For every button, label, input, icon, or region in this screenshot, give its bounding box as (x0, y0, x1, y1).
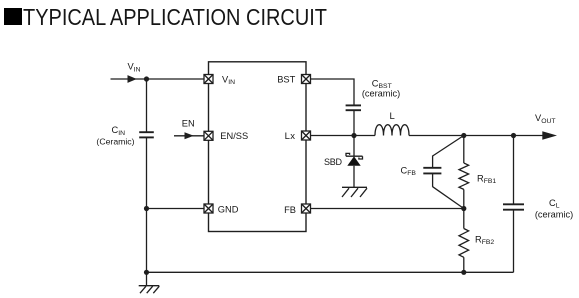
pin BST (277, 75, 310, 85)
junction FB node (461, 206, 466, 211)
svg-text:FB: FB (284, 205, 296, 215)
pin Lx (285, 131, 311, 142)
wire CBST to Lx node (353, 110, 355, 135)
diode SBD (346, 136, 363, 188)
ground (SBD) (342, 187, 367, 197)
svg-text:(Ceramic): (Ceramic) (96, 137, 134, 147)
label CIN (96, 125, 134, 146)
pin FB (284, 204, 310, 215)
ground (bottom left) (139, 272, 160, 293)
svg-text:Lx: Lx (285, 131, 296, 142)
wire left vertical upper (146, 79, 148, 132)
wire L to VOUT (409, 135, 545, 137)
svg-text:EN/SS: EN/SS (220, 131, 248, 141)
resistor RFB2 (459, 209, 469, 273)
wire bottom rail (147, 271, 514, 273)
junction Lx node (351, 133, 356, 138)
junction GND-left node (144, 206, 149, 211)
svg-text:BST: BST (277, 75, 295, 85)
svg-text:GND: GND (218, 204, 239, 214)
capacitor CFB with diagonal leads (423, 136, 464, 209)
svg-text:(ceramic): (ceramic) (362, 88, 400, 98)
junction bottom node (461, 270, 466, 275)
pin VIN (204, 74, 235, 86)
IC U1 body (209, 62, 307, 232)
wire BST to CBST (311, 79, 355, 105)
svg-text:SBD: SBD (324, 157, 343, 167)
junction output node A (461, 133, 466, 138)
svg-text:CL: CL (549, 198, 560, 210)
wire FB line (311, 208, 464, 210)
svg-text:VOUT: VOUT (535, 113, 556, 125)
EN input arrow (174, 132, 204, 139)
junction rail-left node (144, 270, 149, 275)
junction input node (144, 76, 149, 81)
label CL (535, 198, 573, 220)
pin EN/SS (204, 131, 248, 141)
pin GND (204, 204, 239, 214)
svg-text:EN: EN (182, 118, 195, 128)
svg-text:CFB: CFB (401, 165, 417, 177)
title (4, 4, 327, 30)
capacitor CIN (139, 132, 154, 137)
svg-text:(ceramic): (ceramic) (535, 209, 573, 219)
node VIN input label (128, 62, 141, 74)
VIN input arrow (111, 75, 205, 83)
svg-text:L: L (390, 111, 395, 122)
svg-text:TYPICAL APPLICATION CIRCUIT: TYPICAL APPLICATION CIRCUIT (23, 4, 327, 30)
wire GND line (147, 208, 205, 210)
svg-text:RFB2: RFB2 (475, 234, 494, 246)
label CBST (362, 78, 400, 98)
svg-text:VIN: VIN (128, 62, 141, 74)
resistor RFB1 (459, 136, 469, 209)
wire left vertical lower (146, 138, 148, 273)
wire Lx to inductor (311, 135, 376, 137)
svg-text:RFB1: RFB1 (477, 173, 496, 185)
junction output node B (511, 133, 516, 138)
svg-text:CIN: CIN (112, 125, 126, 137)
inductor L (375, 125, 409, 136)
VOUT arrow (542, 131, 557, 140)
capacitor CBST (346, 105, 361, 110)
capacitor CL (503, 136, 524, 273)
